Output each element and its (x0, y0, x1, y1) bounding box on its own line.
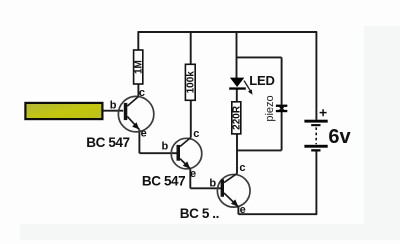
svg-text:c: c (139, 87, 145, 99)
svg-text:b: b (209, 177, 216, 189)
svg-text:100k: 100k (186, 71, 197, 94)
svg-text:LED: LED (249, 73, 274, 88)
svg-text:BC 5 ..: BC 5 .. (180, 206, 219, 221)
svg-text:1M: 1M (134, 60, 145, 74)
svg-text:e: e (240, 204, 246, 216)
svg-text:b: b (110, 100, 117, 112)
svg-text:e: e (190, 168, 196, 180)
svg-text:e: e (141, 127, 147, 139)
svg-text:piezo: piezo (264, 95, 276, 121)
svg-text:b: b (162, 141, 169, 153)
svg-text:6v: 6v (328, 126, 351, 148)
svg-text:220R: 220R (232, 105, 243, 130)
svg-text:BC 547: BC 547 (142, 174, 185, 189)
svg-text:c: c (239, 162, 245, 174)
svg-text:BC 547: BC 547 (86, 135, 129, 150)
svg-text:c: c (193, 128, 199, 140)
